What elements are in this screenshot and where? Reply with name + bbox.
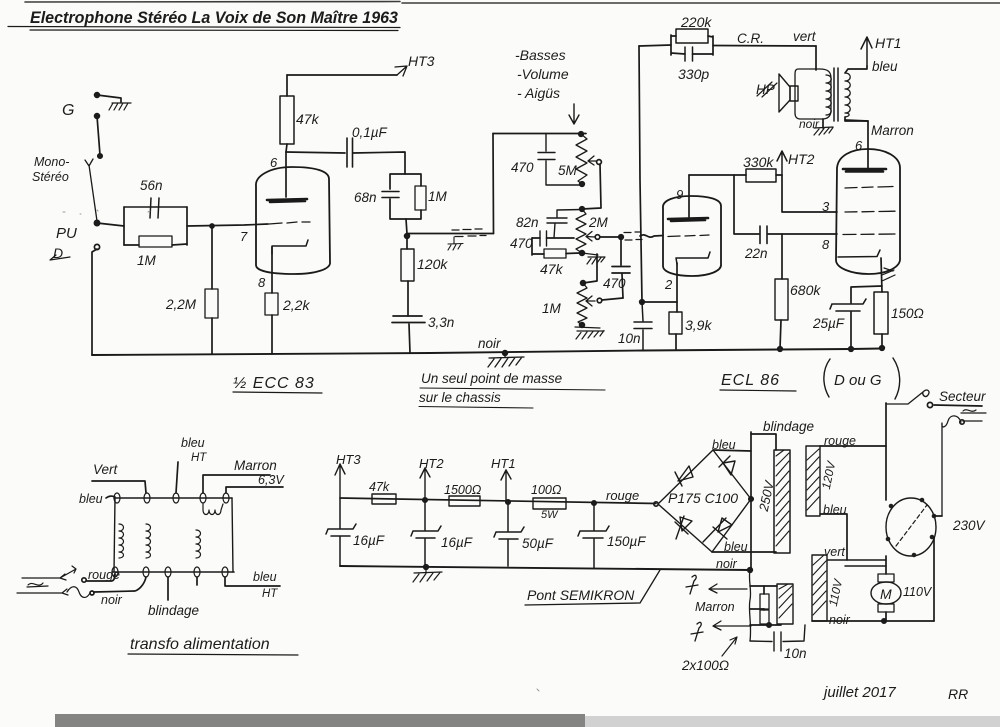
svg-text:6: 6 [855,138,863,153]
wire bleu 120V [820,514,847,560]
tube ECL86 triode envelope [663,196,721,276]
diode lower right [703,518,732,542]
wire primary top to HT1 [845,66,867,73]
svg-text:470: 470 [511,160,534,175]
wire right vertical 230V [933,537,935,621]
label 47k psu [369,480,390,494]
svg-text:150Ω: 150Ω [891,306,924,321]
svg-text:Marron: Marron [695,600,735,614]
label Pont SEMIKRON [527,587,635,603]
label 16uF second [441,535,473,550]
wire 6,3V [226,487,283,493]
label Marron snubber [695,600,735,614]
wire 120V top [820,445,886,447]
label 10n feedback [618,331,641,346]
label noir transfo [101,593,123,607]
cathode wire ECC83 [271,247,273,293]
cathode wire pentode [881,258,882,292]
label 120V [819,459,839,490]
cathode ECC83 [272,240,308,254]
arrow HT3 [395,66,407,76]
selector dots [886,498,937,558]
svg-text:Un seul point de masse: Un seul point de masse [421,371,562,386]
pin 6 label pentode [855,138,863,153]
wiper 5M [588,156,601,165]
paper speckles [63,210,539,691]
label HT1 psu [491,456,516,471]
label P175 C100 [668,490,738,506]
svg-text:P175 C100: P175 C100 [668,490,738,506]
label 470 top [511,160,534,175]
winding snubber [777,584,793,624]
svg-text:D ou G: D ou G [834,372,882,389]
ground pot3 [575,327,604,339]
arrow HT1 [861,37,872,66]
svg-text:10n: 10n [784,646,807,661]
motor M [871,582,901,604]
fuse f marron [686,575,698,594]
svg-text:680k: 680k [790,282,821,298]
label 5M [558,163,578,178]
wire bleu HT bottom [197,577,280,586]
svg-text:1M: 1M [542,301,562,316]
label 25uF [812,316,845,331]
arrow HT1 psu [501,470,511,504]
arrow 2x100R [722,637,737,656]
node RC left [123,207,125,245]
transformer core lines [834,68,838,121]
anode wire pentode [845,120,868,168]
wire node to tone section [407,233,494,235]
svg-text:8: 8 [258,275,266,290]
wire vert double [827,560,886,566]
fuse secteur second [942,416,982,516]
svg-text:HT3: HT3 [408,53,435,69]
svg-text:vert: vert [793,29,817,44]
svg-text:220k: 220k [680,14,712,30]
label vert output [793,29,817,44]
cathode wire triode [676,263,678,312]
svg-text:25µF: 25µF [812,316,845,331]
wire selector to 230V [934,515,942,517]
svg-text:470: 470 [510,236,533,251]
label HT3 psu [336,452,361,467]
svg-text:50µF: 50µF [522,536,554,551]
label rouge transfo [88,568,120,582]
cathode triode [676,252,710,264]
potentiometer 1M [577,281,587,328]
label 1M network [428,189,448,204]
ground speaker [814,127,833,135]
wire snubber vertical [749,570,750,641]
transfo left edge [114,498,115,572]
anode plate ECC83 [267,199,307,202]
wire mains bottom rail [812,620,934,622]
arrow under D [50,255,70,260]
resistor 1M network [415,186,426,210]
wire wiper2 out [600,236,621,238]
transfo bottom rail [112,571,234,573]
svg-text:blindage: blindage [763,419,814,434]
ground shield first stage [448,237,463,250]
label HT3 [408,53,435,69]
svg-text:noir: noir [799,117,820,131]
label ECL 86 [721,372,780,389]
resistor 47k tone [532,238,580,258]
label 50uF [522,536,554,551]
wire PU to RC [97,223,124,226]
label Secteur [939,389,986,404]
label 330p [678,66,709,82]
wire motor bottom [882,612,886,623]
label blindage psu [763,419,814,434]
node pot2 top [580,207,585,212]
network 68n parallel 1M box [390,174,421,219]
resistor 100R psu [533,498,566,509]
node 470 third top [619,235,624,240]
label 150uF [607,534,646,549]
capacitor 10n feedback [634,302,652,350]
grid dashes ECC83 [269,222,310,224]
resistor 100R b [760,609,769,624]
title underline [8,27,400,31]
capacitor 150uF [578,503,609,568]
svg-text:47k: 47k [296,111,320,127]
wire bridge top [713,450,751,451]
wire selector down motor [885,556,887,574]
shield dashes second [624,232,642,240]
capacitor 0,1uF [347,138,353,167]
svg-text:5W: 5W [541,509,559,521]
wire secteur line [934,405,982,406]
svg-text:120k: 120k [417,256,448,272]
psu main line [340,498,656,504]
svg-text:transfo alimentation: transfo alimentation [130,636,270,653]
resistor 680k [775,234,788,349]
wire rouge to transfo [87,574,115,581]
svg-text:56n: 56n [140,178,163,193]
wire coupling to network [353,152,405,174]
label bleu bridge top [712,438,736,452]
label 110V motor [903,585,933,599]
ground psu [413,567,442,582]
terminal G lower [95,114,100,119]
speaker cone [779,74,798,112]
winding third coil [196,530,201,558]
label 68n [354,190,377,205]
svg-text:Marron: Marron [234,458,277,473]
arrow marron [709,584,747,593]
wire tone input riser [492,134,495,234]
capacitor 10n mains [750,625,805,651]
svg-text:0,1µF: 0,1µF [352,125,388,140]
winding second coil [146,524,151,558]
svg-text:rouge: rouge [606,488,639,503]
label 16uF first [353,533,385,548]
switch rouge [22,566,86,582]
svg-text:3: 3 [822,199,830,214]
label noir bridge [716,557,738,571]
wire primary bottom marron [845,117,868,121]
label Marron transfo [234,458,277,473]
label 1/2 ECC 83 [233,375,315,392]
label Basses Volume Aigus [515,47,569,101]
label bleu 120V [823,503,847,517]
label noir rail [478,336,501,351]
svg-text:Secteur: Secteur [939,389,986,404]
node grid junction [210,224,214,228]
capacitor 22n [760,226,837,244]
underline ECL86 [720,390,796,391]
pin 6 label [270,155,278,170]
wiper 1M pot [586,296,602,306]
svg-text:G: G [62,102,74,119]
label 3,9k [685,317,712,333]
label rouge 120V [824,434,856,448]
wire to ECL86 grid [640,235,663,237]
svg-text:-Basses: -Basses [515,47,566,63]
svg-text:RR: RR [948,686,968,702]
speaker coil box [795,69,831,119]
svg-text:bleu: bleu [872,59,898,74]
label 1M input [137,253,157,268]
wire CR right [713,45,816,48]
scan bottom shadow bar [55,714,1000,727]
pin 2 label [664,277,673,292]
wire screen grid [782,175,837,212]
label 110V winding [826,577,846,607]
wire anode to 330k [689,174,746,176]
wire cap3 to wiper3 [602,298,623,300]
label 82n [516,215,539,230]
HP strikethrough [757,82,777,97]
resistor 1500R psu [449,496,480,506]
wire feedback to cathode [640,300,677,305]
resistor 1M input [124,236,187,247]
diode upper left [675,466,693,486]
svg-text:noir: noir [829,613,851,627]
wire RC to grid [187,224,268,226]
pin 8 label [258,275,266,290]
cathode pentode [838,250,880,257]
label 470 third [603,276,626,291]
svg-text:330p: 330p [678,66,709,82]
ground at G [109,103,131,110]
label 22n [744,246,768,261]
label 680k [790,282,821,298]
winding 110V [812,555,827,621]
label un seul point de masse [419,371,562,405]
wire bridge right column [750,432,752,570]
potentiometer 5M [576,134,587,186]
label G [62,102,74,119]
svg-text:6: 6 [270,155,278,170]
capacitor 56n [124,198,187,218]
wire anode to coupling cap [286,152,345,153]
switch lever with arrow [85,159,97,221]
label bleu bridge bottom [724,540,748,554]
label 2M [588,215,609,230]
label 330k [743,154,774,170]
svg-text:110V: 110V [826,577,846,607]
svg-text:C.R.: C.R. [737,31,764,46]
svg-text:bleu: bleu [181,436,205,450]
svg-text:68n: 68n [354,190,377,205]
svg-text:Electrophone Stéréo La Voix de: Electrophone Stéréo La Voix de Son Maîtr… [30,9,398,27]
svg-text:juillet 2017: juillet 2017 [822,684,896,701]
svg-text:8: 8 [822,237,830,252]
label 0,1uF [352,125,388,140]
fuse squiggle noir [67,587,94,598]
node 25uF rail [849,347,854,352]
resistor 330k [746,169,782,182]
anode plate pentode [843,169,886,172]
svg-text:5M: 5M [558,163,578,178]
wiper 2M [586,232,600,242]
arrow HT2 psu [420,468,430,502]
svg-text:110V: 110V [903,585,933,599]
label transfo alimentation [130,636,270,653]
mains tilde secteur [961,410,986,413]
label D ou G [834,372,882,389]
svg-text:-Volume: -Volume [517,66,569,82]
wire anode branch down [734,175,759,234]
label juillet 2017 RR [822,684,968,702]
svg-text:16µF: 16µF [441,535,473,550]
capacitor 16uF second [411,500,441,566]
svg-text:Mono-: Mono- [34,155,69,169]
svg-text:2: 2 [664,277,673,292]
winding primary coil [119,524,124,558]
wire CR left [639,45,671,46]
svg-text:3,9k: 3,9k [685,317,712,333]
capacitor 470 mid [532,231,574,246]
title text Electrophone Stereo La Voix de Son Maitre 1963 [30,9,398,27]
svg-text:3,3n: 3,3n [428,315,454,330]
node psu ground [424,565,429,570]
snubber bottom wire [750,623,781,627]
pin 7 label [240,229,248,244]
svg-text:1M: 1M [137,253,157,268]
anode wire ECC83 [285,152,287,197]
label PU D [53,225,77,261]
ground pot2 [582,253,605,264]
label rouge psu [606,488,639,503]
wire mains left vertical [885,403,887,500]
arrow to controls [569,104,579,124]
label 6,3V [258,473,285,487]
wire wiper1 to pot2 [582,164,601,209]
ground chassis main [488,353,524,367]
svg-text:noir: noir [478,336,501,351]
svg-text:ECL 86: ECL 86 [721,372,780,389]
svg-text:HT2: HT2 [419,456,444,471]
svg-text:Stéréo: Stéréo [32,170,69,184]
svg-text:120V: 120V [819,459,839,490]
resistor 220k feedback [671,29,713,55]
resistor 47k psu [372,494,396,504]
label bleu HT1 [872,59,898,74]
underline pont semikron arrow [525,570,660,605]
transfo top rail [114,497,232,499]
capacitor 470 third [612,237,630,298]
wire speaker ground [822,119,824,128]
label noir speaker [799,117,820,131]
primary winding loops [845,73,850,117]
svg-text:HT1: HT1 [491,456,516,471]
label 230V [952,518,987,533]
svg-text:100Ω: 100Ω [531,483,562,497]
capacitor 68n [382,192,399,198]
resistor 2,2M grid leak [205,226,218,354]
wire switch common [97,116,100,155]
terminal G upper [95,93,100,98]
label 2,2k [282,297,310,313]
tube ECC83 envelope [256,167,330,274]
mains tilde [27,583,48,587]
label bleu HT top [181,436,207,464]
terminals top row [114,493,229,503]
switch secteur [886,390,933,407]
ground rail main [92,349,882,356]
arrow HT2 [777,151,787,175]
label HP [756,82,775,97]
resistor 2,2k cathode [265,293,278,354]
wire vert down [815,46,817,70]
pin 8 label [822,237,830,252]
selector dashed arm [896,505,927,546]
node pot1 top [579,132,584,137]
secondary winding loops [826,75,831,115]
svg-text:7: 7 [240,229,248,244]
node 680k rail [778,347,783,352]
svg-text:bleu: bleu [253,570,277,584]
svg-text:- Aigüs: - Aigüs [517,85,560,101]
grid2 dashes pentode [845,210,895,213]
capacitor 82n [547,210,582,239]
node noir rail [748,568,753,573]
label bleu transfo left [79,492,103,506]
anode wire triode [688,175,690,217]
svg-text:Vert: Vert [93,462,119,477]
svg-text:47k: 47k [369,480,390,494]
label HT1 [875,35,901,51]
capacitor 330p [685,47,693,61]
psu ground rail [340,566,750,570]
label HT2 psu [419,456,444,471]
label 1500R [444,483,482,497]
selector circle [886,498,936,556]
svg-text:6,3V: 6,3V [258,473,285,487]
capacitor 50uF [494,502,524,566]
label M motor [880,586,892,602]
snubber top wire [750,585,777,587]
label 1M pot [542,301,562,316]
resistor 3,9k [669,312,682,349]
grid dashes triode [668,235,709,237]
svg-text:82n: 82n [516,215,539,230]
capacitor 25uF [830,299,866,348]
label 250V [756,478,777,513]
svg-text:16µF: 16µF [353,533,385,548]
resistor 150R [874,292,888,348]
wire bleu transfo [106,496,115,498]
svg-text:HT: HT [262,588,278,600]
svg-text:330k: 330k [743,154,774,170]
svg-text:2,2k: 2,2k [282,297,310,313]
svg-text:noir: noir [101,593,123,607]
svg-text:230V: 230V [952,518,987,533]
